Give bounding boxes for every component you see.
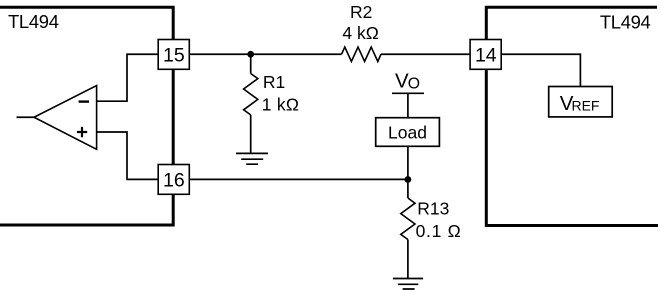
wire pin 14 to VREF box bbox=[501, 54, 580, 86]
wire pin 16 to node B bbox=[189, 178, 408, 180]
svg-text:15: 15 bbox=[163, 44, 185, 66]
svg-text:0.1 Ω: 0.1 Ω bbox=[416, 221, 462, 241]
wire non-inverting input to pin 16 bbox=[97, 132, 159, 179]
svg-text:14: 14 bbox=[475, 44, 497, 66]
svg-text:R13: R13 bbox=[417, 198, 449, 218]
svg-text:16: 16 bbox=[163, 169, 185, 191]
wire R13 to ground bbox=[407, 240, 409, 279]
wire pin 15 to R2 bbox=[189, 53, 341, 55]
VREF box bbox=[549, 87, 613, 117]
svg-text:TL494: TL494 bbox=[8, 11, 59, 32]
wire pin 15 to inverting input bbox=[97, 54, 159, 101]
resistor R2 zigzag bbox=[342, 47, 382, 62]
op-amp non-inverting input plus sign bbox=[77, 127, 87, 137]
ground symbol for R13 bbox=[393, 279, 423, 290]
wire R2 to pin 14 bbox=[381, 53, 470, 55]
wire R1 to ground bbox=[250, 115, 252, 153]
pin 15 box bbox=[158, 40, 189, 70]
resistor R1 zigzag bbox=[244, 74, 258, 115]
wire node A down to R1 bbox=[250, 54, 252, 73]
IC U1 TL494 left block outline bbox=[0, 7, 173, 225]
op-amp output stub wire bbox=[17, 116, 35, 118]
wire VO terminal to Load bbox=[407, 93, 409, 117]
IC U2 TL494 right block outline bbox=[486, 7, 658, 225]
op-amp inverting input minus sign bbox=[79, 100, 89, 102]
wire Load to node B bbox=[407, 146, 409, 179]
svg-text:TL494: TL494 bbox=[600, 12, 651, 33]
Load box bbox=[376, 118, 440, 147]
ground symbol for R1 bbox=[236, 153, 268, 164]
node A junction dot (pin15 / R1 / R2) bbox=[247, 51, 254, 58]
svg-text:Load: Load bbox=[388, 123, 427, 143]
svg-text:R2: R2 bbox=[350, 2, 372, 22]
svg-text:R1: R1 bbox=[263, 72, 285, 92]
node B junction dot (pin16 / Load / R13) bbox=[405, 176, 412, 183]
svg-text:4 kΩ: 4 kΩ bbox=[342, 23, 378, 43]
pin 14 box bbox=[470, 40, 501, 70]
op-amp U1 error amplifier triangle bbox=[34, 86, 97, 150]
svg-text:1 kΩ: 1 kΩ bbox=[262, 94, 300, 114]
wire node B to R13 bbox=[407, 179, 409, 198]
resistor R13 zigzag bbox=[401, 198, 415, 240]
pin 16 box bbox=[158, 165, 189, 195]
VO terminal bar bbox=[392, 92, 424, 94]
